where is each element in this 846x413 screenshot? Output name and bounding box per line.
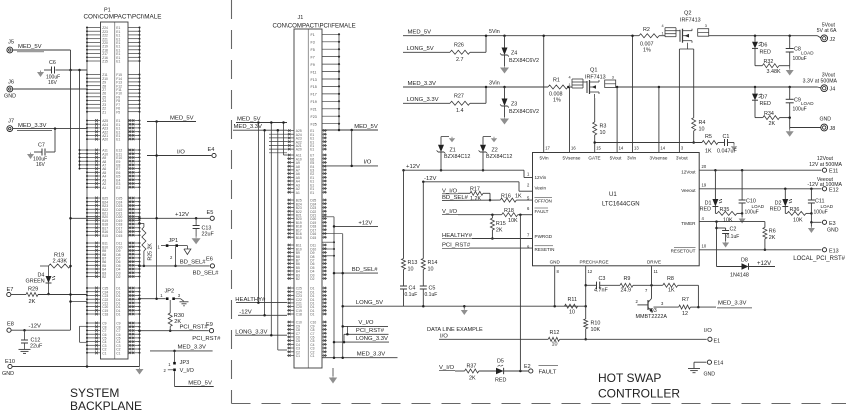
svg-text:U1: U1 [609,192,617,198]
svg-text:4: 4 [662,24,664,28]
svg-text:24.9: 24.9 [621,288,632,294]
svg-text:MED_3.3V: MED_3.3V [357,352,386,358]
svg-text:LONG_3.3V: LONG_3.3V [407,97,439,103]
svg-text:R36: R36 [790,207,800,213]
svg-text:3.48K: 3.48K [767,69,781,75]
svg-text:22uF: 22uF [202,232,215,238]
svg-text:2K: 2K [469,375,476,381]
svg-text:BZX84C6V2: BZX84C6V2 [509,109,539,115]
svg-text:C3: C3 [599,276,606,282]
svg-text:DATA LINE EXAMPLE: DATA LINE EXAMPLE [427,327,483,333]
svg-text:MED_5V: MED_5V [237,117,261,123]
svg-text:10: 10 [428,267,434,273]
svg-text:C1: C1 [296,354,300,358]
svg-text:1: 1 [569,83,571,87]
svg-text:MED_3.3V: MED_3.3V [178,345,207,351]
svg-text:1.2K: 1.2K [470,196,481,202]
svg-text:10: 10 [552,341,558,347]
svg-text:Z3: Z3 [511,102,517,108]
svg-text:TIMER: TIMER [681,221,696,226]
svg-text:-12V: -12V [29,323,42,329]
svg-text:R8: R8 [667,276,674,282]
svg-text:MED_3.3V: MED_3.3V [18,123,47,129]
svg-text:JP2: JP2 [165,289,175,295]
svg-text:R5: R5 [705,134,712,140]
svg-text:R15: R15 [496,221,506,227]
svg-text:3: 3 [612,76,614,80]
svg-text:10K: 10K [591,327,601,333]
svg-text:4: 4 [569,76,571,80]
svg-text:V_I/O: V_I/O [439,365,454,371]
svg-text:E12: E12 [829,187,839,193]
svg-text:I/O: I/O [177,149,185,155]
svg-text:F25: F25 [311,123,317,127]
svg-text:12Vin: 12Vin [535,175,547,180]
svg-text:100uF: 100uF [793,56,807,62]
svg-text:3: 3 [705,24,707,28]
svg-text:HEALTHY#: HEALTHY# [442,233,473,239]
svg-text:14: 14 [619,145,624,150]
svg-text:D15: D15 [116,234,122,238]
svg-text:A1: A1 [102,186,106,190]
svg-text:J2: J2 [830,37,836,43]
svg-text:GND: GND [704,371,716,377]
svg-text:C9: C9 [794,97,801,103]
svg-text:C7: C7 [38,143,45,149]
svg-text:I/O: I/O [364,160,372,166]
svg-text:R4: R4 [699,120,706,126]
svg-text:F5: F5 [311,48,315,52]
svg-text:3Vin: 3Vin [627,156,637,161]
svg-text:E7: E7 [7,287,14,293]
svg-text:-12V: -12V [239,309,252,315]
svg-text:D1: D1 [310,313,314,317]
svg-text:E13: E13 [829,248,839,254]
svg-text:E9: E9 [206,322,213,328]
svg-text:MED_5V: MED_5V [18,44,42,50]
svg-text:SYSTEM: SYSTEM [70,386,119,400]
svg-text:A20: A20 [102,138,108,142]
svg-text:0.047uF: 0.047uF [717,148,737,154]
svg-text:F11: F11 [311,70,317,74]
svg-text:Z2: Z2 [492,148,498,154]
svg-text:2K: 2K [29,299,36,305]
svg-text:E1: E1 [116,60,120,64]
svg-text:V_I/O: V_I/O [180,368,195,374]
svg-text:R13: R13 [408,260,418,266]
svg-text:D6: D6 [761,43,768,49]
svg-text:R29: R29 [28,286,38,292]
svg-text:Q2: Q2 [684,11,691,17]
svg-text:5Vin: 5Vin [489,29,500,35]
svg-text:LONG_5V: LONG_5V [407,46,434,52]
svg-text:BZX84C12: BZX84C12 [444,154,470,160]
svg-text:RED: RED [770,207,781,213]
svg-text:Z1: Z1 [102,110,106,114]
svg-text:FAULT: FAULT [539,369,557,375]
svg-text:RESETIN: RESETIN [535,247,555,252]
svg-text:RED: RED [700,207,711,213]
svg-text:LOAD: LOAD [821,204,834,209]
svg-text:R37: R37 [467,363,477,369]
svg-text:Veeout: Veeout [681,188,696,193]
svg-text:CON\COMPACT\PCI\MALE: CON\COMPACT\PCI\MALE [84,14,162,21]
svg-text:J6: J6 [8,80,14,86]
svg-text:MED_3.3V: MED_3.3V [718,301,747,307]
svg-text:A1: A1 [296,191,300,195]
svg-text:C4: C4 [409,286,416,292]
svg-text:R14: R14 [428,260,438,266]
svg-text:F3: F3 [311,41,315,45]
svg-text:GND: GND [2,371,14,377]
svg-text:GND: GND [550,259,561,264]
svg-text:Z15: Z15 [102,60,108,64]
svg-text:GND: GND [4,94,16,100]
svg-text:B15: B15 [102,234,108,238]
svg-text:C6: C6 [49,60,56,66]
svg-text:1K: 1K [668,288,675,294]
svg-text:D1: D1 [116,313,120,317]
svg-text:5Vout: 5Vout [610,156,622,161]
svg-text:R26: R26 [454,43,464,49]
svg-text:12V at 500MA: 12V at 500MA [809,162,842,168]
svg-text:PCI_RST#: PCI_RST# [356,328,385,334]
svg-text:5Vsense: 5Vsense [563,156,581,161]
svg-text:I/O: I/O [704,328,712,334]
svg-text:FAULT: FAULT [535,209,549,214]
svg-text:10: 10 [408,267,414,273]
svg-text:R18: R18 [504,208,514,214]
svg-text:F7: F7 [311,55,315,59]
svg-text:PCI_RST#: PCI_RST# [180,325,209,331]
svg-text:100uF: 100uF [814,209,828,215]
svg-text:1N4148: 1N4148 [730,272,749,278]
svg-text:2K: 2K [496,228,503,234]
svg-text:4.7nF: 4.7nF [594,288,608,294]
svg-text:R34: R34 [764,111,774,117]
svg-text:BD_SEL#: BD_SEL# [352,267,379,273]
svg-text:1K: 1K [515,194,522,200]
svg-text:13: 13 [634,145,639,150]
svg-text:3Vsense: 3Vsense [650,156,668,161]
svg-text:R1: R1 [553,78,560,84]
svg-text:R2: R2 [643,27,650,33]
svg-text:F17: F17 [311,93,317,97]
svg-text:E2: E2 [116,186,120,190]
svg-text:F15: F15 [311,85,317,89]
svg-text:R35: R35 [720,207,730,213]
svg-text:B2: B2 [102,275,106,279]
svg-text:+12V: +12V [358,220,372,226]
svg-text:1%: 1% [643,48,651,54]
svg-text:LOAD: LOAD [752,204,765,209]
svg-text:16V: 16V [36,162,46,168]
svg-text:CONTROLLER: CONTROLLER [598,387,680,401]
svg-text:16V: 16V [48,80,58,86]
svg-text:E5: E5 [207,210,214,216]
svg-text:R3: R3 [600,124,607,130]
svg-text:10: 10 [600,130,606,136]
svg-text:E4: E4 [208,147,215,153]
svg-text:D2: D2 [116,275,120,279]
svg-text:GND: GND [827,227,839,233]
svg-text:LOAD: LOAD [801,50,814,55]
svg-text:BZX84C6V2: BZX84C6V2 [509,58,539,64]
svg-text:LOAD: LOAD [801,101,814,106]
svg-text:E14: E14 [714,361,724,367]
svg-text:PRECHARGE: PRECHARGE [579,259,608,264]
svg-text:10K: 10K [508,218,518,224]
svg-text:IRF7413: IRF7413 [585,74,606,80]
svg-text:1.4: 1.4 [456,108,464,114]
svg-text:16: 16 [571,145,576,150]
svg-text:LOCAL_PCI_RST#: LOCAL_PCI_RST# [793,256,845,262]
svg-text:R12: R12 [550,330,560,336]
svg-text:F21: F21 [311,108,317,112]
svg-text:D8: D8 [741,258,748,264]
svg-text:I/O: I/O [440,333,448,339]
svg-text:MED_5V: MED_5V [170,115,194,121]
svg-text:LONG_3.3V: LONG_3.3V [235,329,267,335]
svg-text:V_I/O: V_I/O [358,320,373,326]
svg-text:C1: C1 [723,134,730,140]
svg-text:GREEN: GREEN [26,278,45,284]
svg-text:LTC1644CGN: LTC1644CGN [602,202,640,208]
svg-text:P1: P1 [104,8,111,14]
svg-text:PCI_RST#: PCI_RST# [442,243,471,249]
svg-text:R25 2K: R25 2K [148,243,154,261]
svg-text:BZX84C12: BZX84C12 [486,154,512,160]
svg-text:CON\COMPACT\PCI\FEMALE: CON\COMPACT\PCI\FEMALE [273,22,356,29]
svg-text:LONG_3.3V: LONG_3.3V [356,336,388,342]
svg-text:MMBT2222A: MMBT2222A [636,314,668,320]
svg-text:11: 11 [654,269,659,274]
svg-text:1K: 1K [705,148,712,154]
svg-text:J7: J7 [8,119,14,125]
svg-text:C18: C18 [102,313,108,317]
svg-text:E11: E11 [829,169,838,175]
svg-text:5V at 6A: 5V at 6A [817,28,837,34]
svg-text:GND: GND [819,116,831,122]
svg-text:F13: F13 [311,78,317,82]
svg-text:C1: C1 [310,354,314,358]
svg-text:LONG_5V: LONG_5V [356,300,383,306]
svg-text:+12V: +12V [406,164,420,170]
svg-text:C5: C5 [429,286,436,292]
svg-text:5Vin: 5Vin [539,156,549,161]
svg-text:Q3: Q3 [650,308,657,314]
svg-text:D2: D2 [310,277,314,281]
svg-text:0.1uF: 0.1uF [405,292,418,298]
svg-text:R17: R17 [470,187,480,193]
svg-text:R11: R11 [568,297,578,303]
svg-text:0.1uF: 0.1uF [425,292,438,298]
svg-text:2K: 2K [769,121,776,127]
svg-text:MED_5V: MED_5V [354,124,378,130]
svg-text:BACKPLANE: BACKPLANE [70,399,142,413]
svg-text:F19: F19 [311,100,317,104]
svg-text:D7: D7 [761,94,768,100]
svg-text:+12V: +12V [757,261,771,267]
svg-text:GATE: GATE [588,156,600,161]
svg-text:R6: R6 [769,229,776,235]
svg-text:-12V: -12V [424,176,437,182]
svg-text:D15: D15 [310,236,316,240]
svg-text:E1: E1 [310,191,314,195]
svg-text:F9: F9 [311,63,315,67]
svg-text:D5: D5 [497,358,504,364]
svg-text:B15: B15 [296,236,302,240]
svg-text:Q1: Q1 [590,68,597,74]
svg-text:DRIVE: DRIVE [647,259,661,264]
svg-text:Z1: Z1 [450,148,456,154]
svg-text:J4: J4 [830,87,836,93]
svg-text:Veein: Veein [535,185,547,190]
svg-text:1: 1 [662,32,664,36]
svg-text:E6: E6 [206,257,213,263]
svg-text:E8: E8 [7,322,14,328]
svg-text:100uF: 100uF [793,107,807,113]
svg-text:E1: E1 [116,138,120,142]
svg-text:15: 15 [596,145,601,150]
svg-text:12Vout: 12Vout [681,169,696,174]
svg-text:BD_SEL#: BD_SEL# [193,271,220,277]
svg-text:RED: RED [760,101,771,107]
svg-text:RED: RED [760,49,771,55]
svg-text:R10: R10 [591,321,601,327]
svg-text:E1: E1 [310,148,314,152]
svg-text:3Vin: 3Vin [489,80,500,86]
svg-text:IRF7413: IRF7413 [680,17,701,23]
svg-text:+12V: +12V [175,212,189,218]
svg-text:C1: C1 [116,351,120,355]
svg-text:BD_SEL#: BD_SEL# [180,260,207,266]
svg-text:C18: C18 [296,313,302,317]
svg-text:12Vout: 12Vout [817,156,834,162]
svg-text:R16: R16 [501,194,511,200]
svg-text:R27: R27 [454,94,464,100]
svg-text:R32: R32 [764,59,774,65]
svg-text:A20: A20 [296,148,302,152]
svg-text:10K: 10K [723,218,733,224]
svg-text:MED_5V: MED_5V [408,30,432,36]
svg-text:RESETOUT: RESETOUT [671,249,696,254]
svg-text:2.7: 2.7 [456,57,464,63]
svg-text:12: 12 [682,311,688,317]
svg-text:J5: J5 [8,40,14,46]
svg-text:R7: R7 [682,297,689,303]
svg-text:3Vout: 3Vout [676,156,688,161]
svg-text:OFF/ON: OFF/ON [535,199,552,204]
svg-text:HOT SWAP: HOT SWAP [598,371,661,385]
svg-text:19: 19 [702,182,707,187]
svg-text:J8: J8 [830,126,836,132]
svg-text:2K: 2K [769,235,776,241]
svg-text:PCI_RST#: PCI_RST# [192,336,221,342]
svg-text:12: 12 [588,269,593,274]
svg-text:14: 14 [660,145,665,150]
svg-text:HEALTHY#: HEALTHY# [235,297,266,303]
svg-text:MED_3.3V: MED_3.3V [408,81,437,87]
svg-text:C2: C2 [730,226,737,232]
svg-text:PWRGD: PWRGD [535,234,553,239]
svg-text:JP3: JP3 [180,360,190,366]
svg-text:MED_5V: MED_5V [188,380,212,386]
svg-text:1%: 1% [553,98,561,104]
svg-text:E3: E3 [829,221,836,227]
svg-text:C1: C1 [102,351,106,355]
svg-text:10K: 10K [793,218,803,224]
svg-text:RED: RED [495,378,506,384]
svg-text:JP1: JP1 [169,238,179,244]
svg-text:10: 10 [699,127,705,133]
svg-text:B2: B2 [296,277,300,281]
svg-text:F5: F5 [116,110,120,114]
svg-text:E1: E1 [714,338,721,344]
svg-text:C8: C8 [794,47,801,53]
svg-text:R19: R19 [54,253,64,259]
svg-text:J1: J1 [298,15,304,21]
svg-text:20: 20 [702,164,707,169]
svg-text:0.1uF: 0.1uF [727,234,740,240]
svg-text:10: 10 [569,310,575,316]
svg-text:100uF: 100uF [745,209,759,215]
svg-text:10: 10 [702,243,707,248]
svg-text:17: 17 [545,145,550,150]
svg-text:Z4: Z4 [511,51,517,57]
svg-text:MED_3.3V: MED_3.3V [234,124,263,130]
svg-text:3.3V at 500MA: 3.3V at 500MA [803,78,838,84]
svg-text:F1: F1 [311,33,315,37]
svg-text:V_I/O: V_I/O [442,188,457,194]
svg-text:F23: F23 [311,115,317,119]
svg-text:R9: R9 [624,276,631,282]
svg-text:22uF: 22uF [30,343,43,349]
